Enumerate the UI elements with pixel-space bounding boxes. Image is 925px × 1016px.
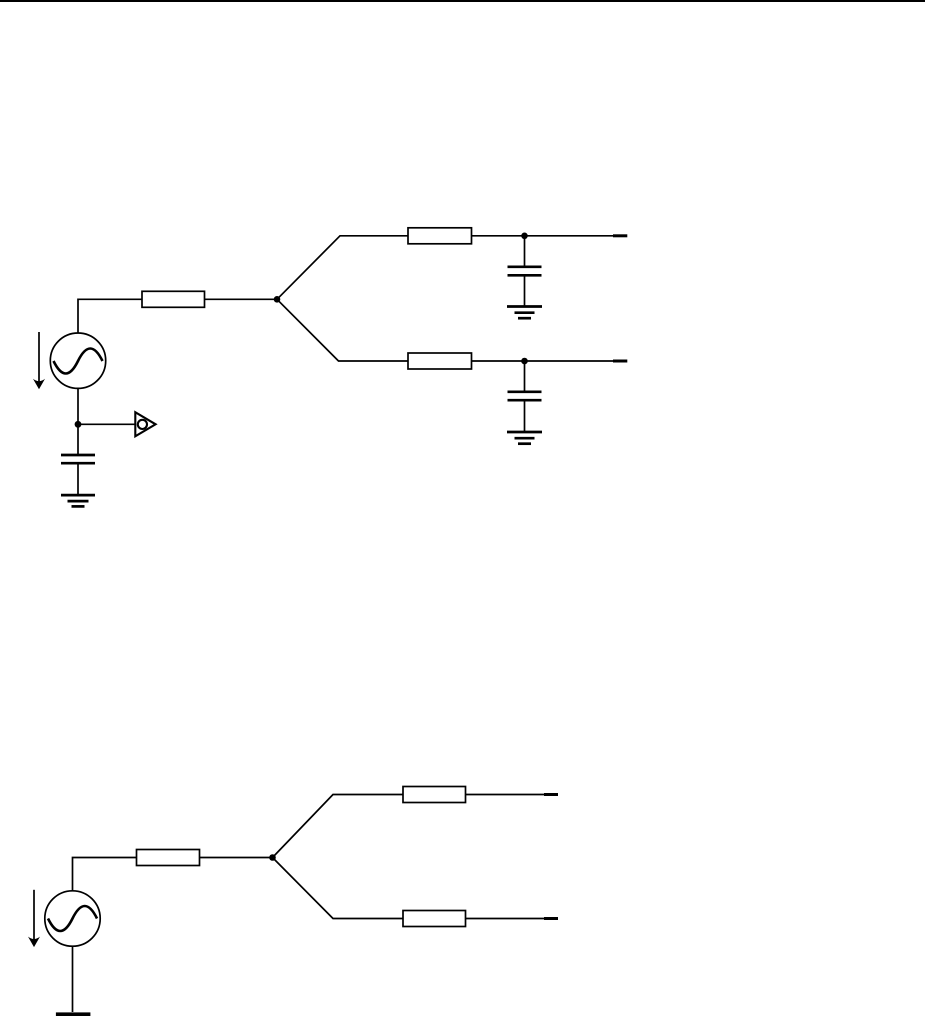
output terminal 4	[544, 917, 558, 920]
wire R5 to output 3	[466, 794, 545, 796]
junction node D	[75, 421, 82, 428]
output terminal 1	[613, 234, 627, 237]
wire V1 bottom to C3	[77, 388, 79, 455]
wire R3 to output 2	[472, 360, 614, 362]
current direction arrow of V2	[28, 890, 40, 947]
voltage source V1	[50, 333, 105, 388]
wire R1 to node A	[205, 298, 278, 300]
capacitor C1	[508, 267, 542, 276]
output terminal 2	[613, 360, 627, 363]
junction node B	[521, 233, 528, 240]
resistor R6	[403, 911, 466, 927]
wire V1 top to R1	[78, 299, 142, 333]
ground (below C1)	[507, 307, 542, 319]
wire R2 to output 1	[472, 235, 614, 237]
wire C2 to ground	[524, 400, 526, 432]
output terminal 3	[544, 793, 558, 796]
resistor R2	[408, 228, 472, 244]
resistor R5	[403, 787, 466, 803]
ground (below C2)	[507, 432, 542, 444]
wire node E to R6 (lower branch)	[273, 858, 404, 919]
capacitor C2	[508, 392, 542, 400]
wire C1 to ground	[524, 275, 526, 306]
wire node B to C1	[524, 236, 526, 267]
resistor R4	[137, 850, 200, 866]
wire C3 to ground	[77, 463, 79, 495]
wire node D to probe port	[78, 423, 135, 425]
net label port (triangle with circle)	[135, 412, 155, 436]
wire node E to R5 (upper branch)	[273, 795, 404, 858]
wire V2 bottom to ground	[72, 946, 74, 1012]
ground (below C3)	[61, 495, 95, 506]
capacitor C3	[61, 455, 95, 463]
wire node A to R2 (upper branch)	[277, 236, 408, 299]
wire node A to R3 (lower branch)	[277, 299, 408, 361]
wire R4 to node E	[200, 857, 273, 859]
resistor R3	[408, 353, 472, 369]
voltage source V2	[45, 891, 100, 946]
wire V2 top to R4	[73, 858, 137, 892]
junction node A	[274, 296, 281, 303]
junction node C	[521, 358, 528, 365]
resistor R1	[142, 291, 205, 307]
current direction arrow of V1	[33, 332, 45, 389]
wire R6 to output 4	[466, 918, 545, 920]
wire node C to C2	[524, 361, 526, 392]
ground (below V2)	[56, 1012, 91, 1016]
junction node E	[269, 854, 276, 861]
